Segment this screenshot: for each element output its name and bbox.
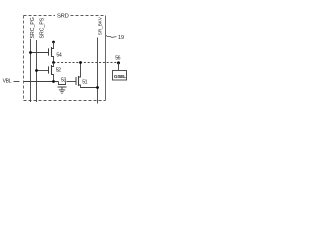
wire: VBL horizontal line: [24, 81, 59, 83]
svg-text:SRC_PG: SRC_PG: [30, 17, 36, 38]
svg-text:56: 56: [115, 55, 120, 61]
transistor Q52: gate lead from SRC_PS: [37, 70, 49, 72]
transistor Q54: channel bar: [51, 47, 53, 57]
transistor Q54: source stub down: [52, 57, 54, 63]
transistor Q51: drain stub up to net 56: [79, 63, 81, 78]
ground symbol: [59, 90, 65, 93]
wire: VBL lead dash: [14, 81, 20, 83]
dashed net 56 (midpoint to GSEL): [54, 62, 118, 64]
node dot on SRC_PG at gate lead: [29, 51, 32, 54]
svg-text:GSEL: GSEL: [114, 74, 126, 80]
transistor Q51: channel bar: [78, 76, 80, 86]
transistor Q51: source stub to SR_BKV: [79, 85, 98, 88]
svg-text:54: 54: [56, 52, 61, 58]
node dot: Q54/Q52 midpoint: [52, 61, 55, 64]
wire/net SRC_PS (gate line of Q52), vertical: [36, 40, 38, 102]
node dot: net 56 at GSEL: [117, 61, 120, 64]
transistor Q53: gate bar: [58, 86, 67, 88]
transistor Q52: drain stub up: [52, 63, 54, 67]
wire/net SRC_PG (gate line of Q54), vertical: [30, 39, 32, 102]
transistor Q52: channel bar: [51, 65, 53, 75]
svg-text:VBL: VBL: [3, 78, 12, 84]
transistor Q52: source stub down: [52, 75, 54, 82]
transistor Q54: gate bar: [48, 48, 50, 55]
block border 19: dashed box top edge (interrupted by SRD label): [24, 15, 106, 17]
wire: Q53 to Q51 gate: [67, 81, 77, 83]
node dot: VBL / Q52 source: [52, 80, 55, 83]
block GSEL box: [113, 71, 127, 81]
transistor Q52: gate bar: [48, 66, 50, 73]
node dot: Q51 source on SR_BKV: [96, 86, 99, 89]
transistor Q53 (horizontal, grounded gate): channel U (source/drain stubs + channel): [59, 82, 66, 85]
transistor Q53: gate lead down: [61, 87, 63, 90]
svg-text:SRD: SRD: [57, 13, 69, 19]
svg-text:52: 52: [56, 67, 61, 73]
wire: Q54 drain stub up: [52, 42, 54, 49]
wire/net SR_BKV (right bias line), vertical: [97, 38, 99, 104]
transistor Q51: gate bar: [75, 77, 77, 85]
node dot: top of Q54 drain: [52, 41, 55, 44]
block border 19: right edge: [105, 16, 107, 101]
squiggle leader to reference numeral 19: [106, 35, 116, 37]
node dot: Q51 drain on net 56: [79, 61, 82, 64]
wire: net 56 down to GSEL box: [118, 63, 120, 70]
block border 19: bottom edge: [24, 100, 106, 102]
svg-text:51: 51: [82, 79, 87, 85]
transistor Q54: gate lead from SRC_PG: [31, 52, 49, 54]
node dot on SRC_PS at gate lead: [35, 69, 38, 72]
svg-text:19: 19: [118, 35, 124, 41]
svg-text:SRC_PS: SRC_PS: [39, 17, 45, 38]
svg-text:53: 53: [61, 77, 66, 83]
block border 19: left edge: [23, 16, 25, 101]
svg-text:SR_BKV: SR_BKV: [98, 16, 103, 35]
